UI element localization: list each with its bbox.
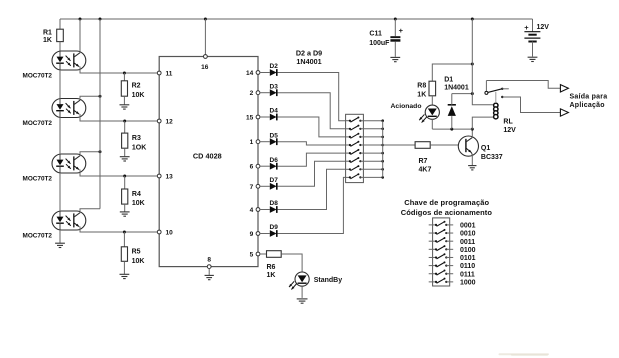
wire coil bottom xyxy=(472,117,493,129)
svg-text:10K: 10K xyxy=(132,200,145,207)
wire D3 to switch row xyxy=(278,93,346,129)
wire D9 to switch row xyxy=(278,177,346,233)
svg-text:12V: 12V xyxy=(503,127,516,134)
svg-text:10: 10 xyxy=(166,230,174,237)
svg-text:0111: 0111 xyxy=(460,271,475,278)
svg-text:1N4001: 1N4001 xyxy=(296,57,321,66)
svg-text:10K: 10K xyxy=(132,92,145,99)
label D2 a D9 xyxy=(296,49,322,58)
output arrow 1 xyxy=(560,85,568,92)
junction collector bus on rail xyxy=(99,18,102,21)
junction bus row 8 xyxy=(381,176,384,179)
junction bus row 7 xyxy=(381,168,384,171)
ground R4 xyxy=(120,212,130,216)
ground R2 xyxy=(120,105,130,109)
svg-text:4: 4 xyxy=(250,207,254,214)
svg-text:D6: D6 xyxy=(270,157,279,164)
wire output bus S1 xyxy=(382,121,384,178)
svg-text:15: 15 xyxy=(246,115,254,122)
wire Q1 collector xyxy=(471,129,473,138)
junction bus row 2 xyxy=(381,128,384,131)
battery 12V xyxy=(524,19,549,57)
junction D1 anode xyxy=(450,128,453,131)
svg-text:R8: R8 xyxy=(417,82,426,89)
resistor R5 xyxy=(121,232,144,274)
wire D4 to switch row xyxy=(278,117,346,137)
wire D7 to switch row xyxy=(278,161,346,186)
svg-text:0110: 0110 xyxy=(460,263,475,270)
label Aplicacao xyxy=(570,102,605,109)
pin 2 xyxy=(250,90,260,97)
svg-text:8: 8 xyxy=(207,257,211,264)
pin 8 xyxy=(207,257,211,269)
wire opto4 LED cathode down xyxy=(59,230,61,243)
diode D4 xyxy=(260,108,278,121)
optocoupler U5 MOC70T2 xyxy=(23,211,86,240)
svg-text:R7: R7 xyxy=(419,158,428,165)
svg-text:D4: D4 xyxy=(270,108,279,115)
resistor R6 xyxy=(267,251,282,279)
resistor R8 xyxy=(417,81,435,98)
LED Acionado xyxy=(391,103,440,123)
svg-text:4K7: 4K7 xyxy=(419,166,432,173)
svg-text:Aplicação: Aplicação xyxy=(570,102,605,109)
svg-text:14: 14 xyxy=(246,70,254,77)
svg-text:5: 5 xyxy=(250,252,254,259)
svg-text:16: 16 xyxy=(201,64,209,71)
diode D6 xyxy=(260,157,278,170)
pin 5 xyxy=(250,252,260,259)
junction D1 feed xyxy=(471,92,474,95)
diode D7 xyxy=(260,177,278,190)
wire opto1 collector to rail xyxy=(79,19,81,52)
svg-text:100uF: 100uF xyxy=(369,40,390,47)
junction R4 top xyxy=(123,175,126,178)
junction R2 top xyxy=(123,72,126,75)
pin 9 xyxy=(250,231,260,238)
junction bus row 4 xyxy=(381,144,384,147)
wire opto3 LED cathode to opto4 xyxy=(59,173,61,211)
svg-text:0101: 0101 xyxy=(460,255,476,262)
ground C11 xyxy=(390,57,400,61)
pin 15 xyxy=(246,115,260,122)
pin 11 xyxy=(157,71,172,78)
svg-text:R6: R6 xyxy=(267,264,276,271)
svg-text:Acionado: Acionado xyxy=(391,103,422,110)
wire collector node horizontal xyxy=(432,128,472,130)
wire pin 5 to R6 xyxy=(260,253,267,255)
junction C11 on rail xyxy=(394,18,397,21)
wire Q1 emitter to ground xyxy=(471,155,473,165)
wire opto2 emitter to pin 12 xyxy=(80,114,157,121)
wire opto3 emitter to pin 13 xyxy=(80,170,157,177)
label 1N4001 group xyxy=(296,57,321,66)
optocoupler U3 MOC70T2 xyxy=(23,99,86,128)
svg-text:D9: D9 xyxy=(270,224,279,231)
junction bus row 6 xyxy=(381,160,384,163)
ground Q1 xyxy=(468,166,476,170)
svg-text:Q1: Q1 xyxy=(481,145,490,152)
wire rail to R1 xyxy=(59,19,61,29)
junction bus row 1 xyxy=(381,119,384,122)
pin 4 xyxy=(250,207,260,214)
svg-text:D2: D2 xyxy=(270,63,279,70)
svg-text:D8: D8 xyxy=(270,200,279,207)
wire opto2 LED cathode to opto3 xyxy=(59,118,61,155)
pin 14 xyxy=(246,70,260,77)
junction collector node xyxy=(471,128,474,131)
node watermark smudge xyxy=(499,353,550,355)
svg-text:RL: RL xyxy=(503,119,513,126)
junction R3 top xyxy=(123,120,126,123)
ground StandBy xyxy=(297,299,308,303)
pin 12 xyxy=(157,119,173,126)
svg-text:1K: 1K xyxy=(43,37,52,44)
ground R3 xyxy=(120,157,130,161)
wire R1 to opto1 LED xyxy=(59,42,61,53)
svg-text:D5: D5 xyxy=(270,132,279,139)
wire D5 to switch row xyxy=(278,142,346,145)
svg-text:MOC70T2: MOC70T2 xyxy=(23,233,53,240)
svg-text:MOC70T2: MOC70T2 xyxy=(23,73,53,80)
ground battery xyxy=(528,57,538,61)
wire D2 to switch row xyxy=(278,73,346,121)
svg-text:2: 2 xyxy=(250,90,254,97)
svg-text:13: 13 xyxy=(166,174,174,181)
svg-text:C11: C11 xyxy=(369,31,382,38)
diode D1 1N4001 xyxy=(444,76,469,129)
junction bus row 5 xyxy=(381,152,384,155)
wire R8 to LED xyxy=(431,96,433,105)
switch S2-1 code 0001 xyxy=(429,221,476,230)
switch S2-8 code 1000 xyxy=(429,278,476,287)
switch S1-1 xyxy=(346,117,383,123)
wire R7 to Q1 base xyxy=(430,144,463,146)
switch block S1 body xyxy=(346,114,364,182)
wire D1 cathode to feed xyxy=(452,93,473,95)
svg-text:12: 12 xyxy=(166,119,174,126)
label Chave de programacao xyxy=(404,198,489,207)
output arrow 2 xyxy=(560,109,568,116)
svg-text:R3: R3 xyxy=(132,135,141,142)
svg-text:BC337: BC337 xyxy=(481,154,503,161)
label Saida para xyxy=(570,94,608,101)
wire +12V feed down xyxy=(472,19,493,105)
svg-text:+: + xyxy=(524,23,529,32)
svg-text:1: 1 xyxy=(250,139,254,146)
pin 6 xyxy=(250,164,260,171)
wire opto1 emitter to pin 11 xyxy=(80,67,157,74)
switch S2-3 code 0011 xyxy=(429,237,476,246)
svg-text:0010: 0010 xyxy=(460,231,476,238)
ground R5 xyxy=(120,274,130,278)
switch S1-7 xyxy=(346,165,383,171)
svg-text:D1: D1 xyxy=(444,76,453,83)
relay contact common xyxy=(485,81,488,95)
switch S1-4 xyxy=(346,141,383,147)
svg-text:R1: R1 xyxy=(43,30,52,37)
diode D8 xyxy=(260,200,278,213)
svg-text:Códigos de acionamento: Códigos de acionamento xyxy=(401,208,493,217)
wire common to output 1 xyxy=(486,81,560,89)
switch S1-3 xyxy=(346,133,383,139)
pin 7 xyxy=(250,184,260,191)
pin 16 xyxy=(201,19,209,71)
svg-text:Chave de programação: Chave de programação xyxy=(404,198,489,207)
junction relay feed on rail xyxy=(471,18,474,21)
svg-text:1K: 1K xyxy=(267,272,276,279)
wire opto4 collector to bus xyxy=(80,209,100,211)
resistor R7 xyxy=(415,142,431,174)
svg-text:0001: 0001 xyxy=(460,223,476,230)
switch S1-2 xyxy=(346,125,383,131)
wire opto2 collector to bus xyxy=(80,96,100,98)
wire R6 to StandBy LED xyxy=(281,254,302,272)
svg-text:D7: D7 xyxy=(270,177,279,184)
ground pin 8 xyxy=(205,275,214,279)
diode D5 xyxy=(260,132,278,145)
relay RL coil xyxy=(494,103,517,134)
wire pin 8 to ground xyxy=(208,269,210,275)
switch S2-4 code 0100 xyxy=(429,245,476,254)
svg-text:7: 7 xyxy=(250,184,254,191)
diode D2 xyxy=(260,63,278,76)
capacitor C11 xyxy=(369,19,403,57)
switch S1-6 xyxy=(346,157,383,163)
svg-text:StandBy: StandBy xyxy=(314,277,343,284)
switch S2-7 code 0111 xyxy=(429,270,475,279)
transistor Q1 BC337 xyxy=(458,136,502,161)
junction R5 top xyxy=(123,231,126,234)
LED StandBy xyxy=(289,272,342,290)
wire opto3 collector to bus xyxy=(80,152,100,154)
junction opto2 collector xyxy=(99,95,102,98)
wire StandBy LED to ground xyxy=(301,286,303,298)
junction opto1 collector on rail xyxy=(79,18,82,21)
pin 10 xyxy=(157,230,173,237)
svg-text:0011: 0011 xyxy=(460,239,475,246)
wire D6 to switch row xyxy=(278,153,346,166)
switch S1-5 xyxy=(346,149,383,155)
wire R8 top xyxy=(432,64,472,81)
relay armature link xyxy=(495,92,497,103)
switch S1-8 xyxy=(346,173,383,179)
svg-text:1K: 1K xyxy=(417,92,426,99)
svg-text:0100: 0100 xyxy=(460,247,476,254)
wire opto4 emitter to pin 10 xyxy=(80,227,157,233)
svg-text:9: 9 xyxy=(250,231,254,238)
IC U1 CD 4028 xyxy=(159,57,258,267)
svg-text:11: 11 xyxy=(166,71,173,78)
wire LED to collector node xyxy=(431,119,433,129)
junction bus row 3 xyxy=(381,136,384,139)
svg-text:1OK: 1OK xyxy=(132,144,146,151)
svg-text:1000: 1000 xyxy=(460,279,476,286)
pin 1 xyxy=(250,139,260,146)
switch S2-6 code 0110 xyxy=(429,261,476,270)
svg-text:1N4001: 1N4001 xyxy=(444,85,469,92)
junction opto3 collector xyxy=(99,150,102,153)
wire D8 to switch row xyxy=(278,169,346,209)
svg-text:D3: D3 xyxy=(270,83,279,90)
switch block S2 body xyxy=(433,218,450,286)
resistor R4 xyxy=(122,176,145,212)
svg-text:R2: R2 xyxy=(132,83,141,90)
svg-text:12V: 12V xyxy=(537,24,550,31)
svg-text:CD 4028: CD 4028 xyxy=(193,151,222,160)
svg-text:10K: 10K xyxy=(132,258,145,265)
switch S2-2 code 0010 xyxy=(429,229,476,238)
optocoupler U4 MOC70T2 xyxy=(23,154,86,183)
svg-text:+: + xyxy=(399,26,404,35)
svg-text:MOC70T2: MOC70T2 xyxy=(23,176,53,183)
svg-text:R5: R5 xyxy=(132,249,141,256)
junction R8 feed xyxy=(471,63,474,66)
wire opto1 LED cathode to opto2 xyxy=(59,70,61,99)
pin 13 xyxy=(157,174,173,181)
wire bus to R7 xyxy=(383,144,415,146)
resistor R3 xyxy=(122,121,147,156)
svg-text:MOC70T2: MOC70T2 xyxy=(23,120,53,127)
wire +12V top rail xyxy=(60,18,533,20)
label Codigos de acionamento xyxy=(401,208,493,217)
diode D9 xyxy=(260,224,278,237)
resistor R2 xyxy=(121,73,144,104)
relay NO contact xyxy=(501,96,503,98)
wire NO to output 2 xyxy=(502,97,560,113)
relay contact arm xyxy=(488,88,509,93)
switch S2-5 code 0101 xyxy=(429,253,476,262)
optocoupler U2 MOC70T2 xyxy=(23,51,86,80)
junction pin16 on rail xyxy=(204,18,207,21)
ground LED chain xyxy=(55,243,65,247)
diode D3 xyxy=(260,83,278,96)
resistor R1 xyxy=(43,29,63,44)
svg-text:6: 6 xyxy=(250,164,254,171)
svg-text:R4: R4 xyxy=(132,191,141,198)
wire collector bus xyxy=(99,19,101,209)
svg-text:Saída para: Saída para xyxy=(570,94,608,101)
